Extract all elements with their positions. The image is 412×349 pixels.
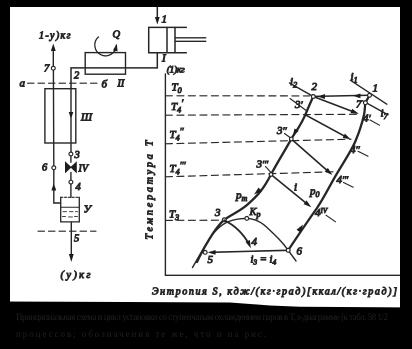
throttling line 3 to 4 — [224, 220, 249, 244]
label 3''' with pointer — [266, 167, 271, 173]
node 6 (diagram) — [286, 248, 290, 252]
svg-text:5: 5 — [208, 254, 214, 266]
label 4'' with pointer — [358, 151, 368, 156]
svg-text:2: 2 — [74, 71, 80, 82]
heat exchanger III rectangle — [45, 89, 76, 143]
arrowhead on p_0 between 6 and 4'''' — [297, 223, 305, 232]
svg-text:Принципиальная схема и цикл ус: Принципиальная схема и цикл установки со… — [16, 312, 388, 322]
label 4''' with pointer — [344, 183, 354, 188]
node 5 — [203, 251, 207, 255]
critical point Kp — [245, 217, 249, 221]
svg-text:Q: Q — [113, 30, 121, 41]
node 3 — [69, 152, 73, 156]
saturation dome left branch through 5 and up to Kp — [193, 218, 247, 267]
section dashed line 5 — [38, 230, 96, 232]
svg-text:i: i — [294, 182, 297, 194]
wire valve to node 4 — [70, 172, 72, 180]
scan border left — [0, 0, 10, 349]
isotherm dashes T3 — [165, 219, 222, 221]
node 3''' — [269, 173, 273, 177]
condenser II rectangle — [85, 53, 125, 75]
svg-text:2: 2 — [312, 81, 318, 93]
section dashed line a-b — [28, 82, 102, 84]
svg-text:1: 1 — [373, 83, 379, 95]
isotherm dashes T4' — [165, 113, 359, 116]
saturation dome right branch Kp to 6 — [247, 218, 296, 261]
wire 3 to valve — [70, 156, 72, 162]
svg-text:б: б — [102, 79, 108, 91]
node 6 — [52, 166, 56, 170]
enthalpy tangent i2 at point 2 — [290, 83, 314, 97]
arrowhead on p_t between 3''' and 3 — [252, 188, 261, 197]
node 4 — [69, 180, 73, 184]
svg-text:4′′′: 4′′′ — [337, 174, 350, 186]
isotherm dashes T0 — [165, 95, 309, 97]
scan border top — [0, 0, 412, 7]
svg-text:7: 7 — [44, 64, 50, 75]
scan border right — [400, 0, 412, 349]
label 4'''' with pointer — [326, 215, 336, 222]
liquid level in V — [61, 206, 80, 208]
wire: vapor return line from V up to 6 and 7 — [54, 170, 61, 203]
x axis (entropy) — [165, 274, 404, 276]
svg-text:1: 1 — [162, 14, 168, 26]
svg-text:4: 4 — [76, 182, 82, 193]
svg-text:II: II — [117, 79, 125, 90]
diagonal 2 to 4' — [313, 97, 354, 113]
svg-text:5: 5 — [74, 234, 79, 245]
valve IV — [65, 162, 71, 172]
isobar p_0 bold curve 6-4''''-4'''-4''-4'-7-1 — [288, 95, 369, 250]
wire: compressor outlet to condenser coil — [71, 53, 157, 89]
compressor I cylinder — [149, 27, 187, 52]
label 4' with pointer — [370, 120, 380, 125]
wire: 2-3 line through exchanger — [70, 89, 72, 152]
label 3'' with pointer — [285, 134, 291, 138]
node 3 (diagram) — [222, 218, 226, 222]
svg-text:3′: 3′ — [294, 99, 304, 111]
svg-text:Энтропия S, кдж/(кг·град)[ккал: Энтропия S, кдж/(кг·град)[ккал/(кг·град)… — [152, 287, 397, 298]
svg-text:6: 6 — [297, 246, 303, 258]
node 7 (diagram) — [364, 101, 368, 105]
svg-text:3′′′: 3′′′ — [256, 159, 270, 171]
node 1 — [368, 93, 372, 97]
enthalpy tangent i7 at point 7 — [363, 101, 389, 115]
heat arrow Q arc — [95, 37, 117, 56]
svg-text:4: 4 — [252, 236, 258, 248]
diagonal 3'' to 4''' — [291, 139, 328, 172]
node 3'' — [290, 137, 294, 141]
svg-text:4′′: 4′′ — [350, 144, 361, 156]
isobar p_t bold curve 2-3'-3''-3'''-3 — [197, 97, 313, 263]
scan border bottom with caption — [0, 302, 412, 349]
isotherm dashes T4''' — [165, 172, 333, 177]
arrowhead on p_t above 3'' — [291, 128, 299, 137]
compressor piston — [167, 27, 175, 52]
separator vessel V — [61, 196, 80, 198]
svg-text:4′: 4′ — [363, 113, 372, 125]
svg-text:3: 3 — [214, 207, 221, 219]
node 7 — [51, 66, 55, 70]
node 2 — [311, 95, 315, 99]
compressor piston rod — [175, 38, 206, 42]
diagonal 3''' to 4'''' — [271, 175, 307, 205]
y axis (temperature) — [164, 74, 166, 275]
wire: feed pipe into compressor from top — [156, 7, 158, 20]
tie line 5-6 with arrow toward 5 — [211, 250, 288, 252]
wire: liquid outlet from V — [70, 222, 72, 258]
wire 7 upward with arrow — [52, 48, 54, 66]
svg-text:7: 7 — [356, 99, 362, 111]
wire 4 to separator — [70, 184, 72, 197]
svg-text:6: 6 — [42, 163, 48, 174]
wire 6 to 7 — [52, 70, 54, 166]
svg-text:а: а — [20, 78, 26, 90]
process line 1-2 with arrows — [315, 95, 369, 96]
diagonal 3' to 4'' — [305, 115, 346, 138]
isotherm dashes T4'' — [165, 139, 351, 144]
svg-text:3: 3 — [74, 150, 80, 161]
svg-text:3′′: 3′′ — [276, 125, 288, 137]
svg-text:Ш: Ш — [80, 113, 93, 124]
label 3' with pointer — [290, 99, 308, 112]
enthalpy tangent i1 at point 1 — [351, 80, 387, 104]
svg-text:(1)кг: (1)кг — [167, 65, 185, 76]
